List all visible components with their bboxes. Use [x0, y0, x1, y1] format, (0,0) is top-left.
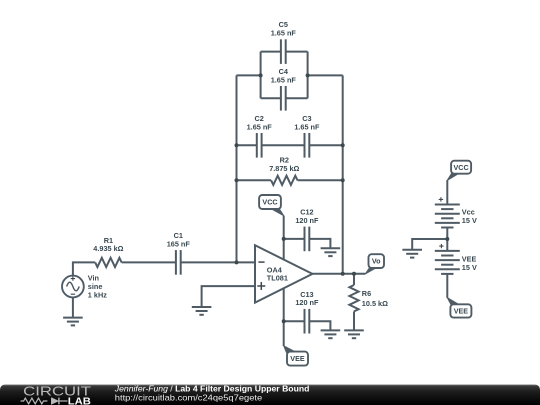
- wire VCC supply pin: [283, 216, 285, 262]
- wire op-amp output: [312, 273, 365, 275]
- svg-text:1.65 nF: 1.65 nF: [247, 122, 273, 131]
- svg-text:VCC: VCC: [454, 163, 469, 172]
- svg-text:4.935 kΩ: 4.935 kΩ: [93, 244, 123, 253]
- CircuitLab logo resistor squiggle: [21, 398, 48, 404]
- svg-text:10.5 kΩ: 10.5 kΩ: [362, 299, 388, 308]
- capacitor C4: [281, 86, 286, 111]
- resistor R6: [349, 285, 358, 311]
- svg-text:http://circuitlab.com/c24qe5q7: http://circuitlab.com/c24qe5q7egete: [115, 392, 263, 402]
- wire R2 branch left: [237, 179, 272, 181]
- battery Vcc: [435, 205, 460, 228]
- node A: [259, 73, 263, 77]
- net flag VEE at supply: [447, 298, 471, 318]
- ground at C12: [321, 248, 341, 256]
- wire non-inverting input to ground: [202, 286, 255, 307]
- wire right tap from loop: [308, 74, 343, 76]
- op-amp non-inverting mark: [257, 282, 265, 290]
- net flag VCC at supply: [447, 161, 471, 181]
- junction VCC pin: [282, 237, 286, 241]
- wire VCC pin to C12: [284, 239, 331, 248]
- junction VEE pin: [282, 319, 286, 323]
- wire feedback left vertical: [236, 75, 238, 262]
- wire VEE pin to C13: [284, 321, 331, 330]
- capacitor C2: [257, 133, 262, 158]
- wire R2 branch right: [298, 179, 343, 181]
- junction R2 left: [235, 178, 239, 182]
- battery VEE: [435, 251, 460, 274]
- net flag Vo: [365, 254, 384, 274]
- wire C5 branch: [261, 51, 308, 53]
- op-amp inverting mark: [258, 261, 264, 263]
- svg-text:R6: R6: [362, 289, 371, 298]
- junction R2 right: [341, 178, 345, 182]
- capacitor C3: [305, 133, 310, 158]
- capacitor C1: [176, 250, 181, 275]
- ground at C13: [321, 330, 341, 338]
- svg-text:15 V: 15 V: [462, 216, 477, 225]
- wire C4/C5 loop left vertical: [260, 52, 262, 99]
- svg-text:LAB: LAB: [68, 396, 91, 405]
- ground at battery midpoint: [402, 250, 422, 258]
- wire between batteries: [446, 228, 448, 251]
- junction C2C3 right: [341, 143, 345, 147]
- brand bar background: [0, 385, 540, 405]
- wire C4/C5 loop right vertical: [307, 52, 309, 99]
- wire battery midpoint to ground: [412, 239, 447, 250]
- svg-text:1.65 nF: 1.65 nF: [271, 29, 297, 38]
- ground below R6: [344, 330, 364, 338]
- net flag VCC at op-amp: [259, 195, 284, 216]
- net flag VEE at op-amp: [284, 346, 308, 366]
- capacitor C5: [281, 39, 286, 64]
- wire VEE battery to flag: [446, 274, 448, 298]
- wire R6 to ground: [353, 311, 355, 330]
- capacitor C12: [305, 227, 310, 252]
- wire output to R6: [353, 274, 355, 285]
- wire feedback right vertical: [342, 75, 344, 273]
- svg-text:1.65 nF: 1.65 nF: [294, 122, 320, 131]
- svg-text:1 kHz: 1 kHz: [88, 290, 107, 299]
- junction between batteries: [445, 237, 449, 241]
- CircuitLab logo diode: [51, 398, 67, 405]
- junction feedback at output: [341, 272, 345, 276]
- svg-text:120 nF: 120 nF: [295, 298, 319, 307]
- junction R6 at output: [352, 272, 356, 276]
- wire VEE supply pin: [283, 282, 285, 346]
- wire from Vin through R1 to C1: [73, 262, 95, 275]
- junction C2C3 left: [235, 143, 239, 147]
- junction at inverting input: [235, 260, 239, 264]
- node B: [306, 73, 310, 77]
- ground at non-inverting input: [192, 307, 212, 315]
- wire C4 branch: [261, 97, 308, 99]
- wire left tap to C4/C5 loop: [237, 74, 261, 76]
- Vin polarity marks: [71, 276, 75, 294]
- wire C2 C3 branch: [237, 144, 343, 146]
- op-amp OA4 TL081: [255, 245, 312, 302]
- capacitor C13: [305, 309, 310, 334]
- resistor R2: [271, 176, 297, 185]
- svg-text:1.65 nF: 1.65 nF: [271, 75, 297, 84]
- battery VEE plus mark: [439, 244, 443, 248]
- svg-text:120 nF: 120 nF: [295, 216, 319, 225]
- ground below Vin: [63, 318, 83, 326]
- svg-text:VEE: VEE: [454, 307, 469, 316]
- svg-text:VEE: VEE: [290, 354, 305, 363]
- svg-text:TL081: TL081: [267, 274, 288, 283]
- voltage source Vin: [62, 276, 84, 318]
- resistor R1: [95, 258, 121, 267]
- svg-text:15 V: 15 V: [462, 263, 477, 272]
- svg-text:VCC: VCC: [262, 198, 277, 207]
- wire R1 to C1: [122, 261, 176, 263]
- svg-text:Vo: Vo: [372, 257, 381, 266]
- battery Vcc plus mark: [439, 197, 443, 201]
- svg-text:7.875 kΩ: 7.875 kΩ: [269, 164, 299, 173]
- svg-text:165 nF: 165 nF: [167, 239, 191, 248]
- wire C1 to op-amp inverting input: [181, 261, 255, 263]
- wire VCC flag to battery: [446, 180, 448, 204]
